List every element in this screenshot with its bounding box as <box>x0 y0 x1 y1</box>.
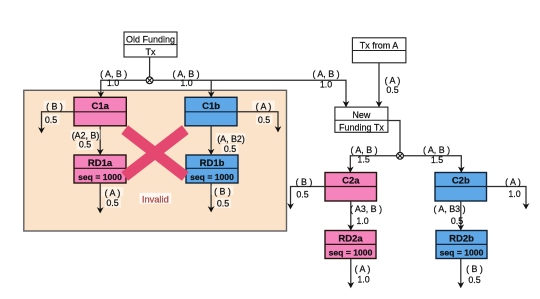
svg-text:1.0: 1.0 <box>356 216 368 226</box>
svg-text:( B ): ( B ) <box>466 264 483 274</box>
label (B) 0.5 below RD1b <box>212 186 234 209</box>
arrow C2b right output <box>523 203 530 209</box>
label (A3, B) 1.0 <box>350 204 382 226</box>
svg-text:( A3, B ): ( A3, B ) <box>350 204 382 214</box>
label (A) 1.0 right of C2b <box>505 177 521 199</box>
arrow RD1b output <box>208 206 215 212</box>
svg-text:1.0: 1.0 <box>357 274 369 284</box>
wire C1a left output (B) 0.5 <box>42 112 75 132</box>
revocable delivery box RD2a <box>325 231 376 259</box>
label (A,B) 1.0 left branch <box>100 69 127 88</box>
svg-text:RD1a: RD1a <box>88 158 113 169</box>
revocable delivery box RD1a <box>74 155 126 183</box>
label (A2, B) 0.5 <box>71 130 101 151</box>
arrow into RD2b <box>457 224 464 230</box>
svg-text:1.5: 1.5 <box>357 155 369 165</box>
svg-text:RD2b: RD2b <box>449 233 474 244</box>
arrow into C2a <box>347 167 354 173</box>
wire RD2b output (B) 0.5 <box>460 259 462 288</box>
svg-text:( A, B3 ): ( A, B3 ) <box>433 204 465 214</box>
svg-text:C2b: C2b <box>452 176 470 187</box>
commitment box C2a <box>325 173 377 202</box>
label (B) 0.5 left of C2a <box>296 177 313 200</box>
arrow C2a left output <box>287 203 294 209</box>
svg-text:0.5: 0.5 <box>224 144 236 154</box>
svg-text:( A ): ( A ) <box>256 102 272 112</box>
label Invalid background patch <box>140 193 172 204</box>
junction X1 <box>146 77 153 84</box>
box New Funding Tx <box>335 107 388 132</box>
junction X2 <box>397 152 404 159</box>
invalid-region tan panel <box>24 90 287 231</box>
wire branch down to C1b <box>210 80 212 97</box>
svg-text:1.0: 1.0 <box>320 80 332 90</box>
arrow into RD1a <box>97 149 104 155</box>
label (A,B) 1.5 right of X2 <box>423 145 450 165</box>
svg-text:seq = 1000: seq = 1000 <box>190 172 234 182</box>
svg-text:0.5: 0.5 <box>386 85 398 95</box>
label (A,B) 1.0 right branch <box>172 69 199 88</box>
label (A,B) 1.0 far right branch <box>312 69 339 89</box>
svg-text:C1b: C1b <box>202 101 220 112</box>
commitment box C1b <box>185 97 237 126</box>
arrow RD2a output <box>347 282 354 288</box>
wire New Funding Tx to junction X2 <box>388 121 400 156</box>
label (A) 0.5 <box>252 101 275 126</box>
svg-text:1.0: 1.0 <box>508 189 520 199</box>
svg-text:0.5: 0.5 <box>468 275 480 285</box>
svg-text:Funding Tx: Funding Tx <box>339 122 384 132</box>
svg-text:0.5: 0.5 <box>451 216 463 226</box>
commitment box C1a <box>74 97 126 126</box>
big red X invalid mark <box>125 130 186 177</box>
svg-text:seq = 1000: seq = 1000 <box>440 248 484 258</box>
wire C2a to RD2a <box>350 201 352 230</box>
svg-text:Tx: Tx <box>146 47 156 57</box>
wire C1b right output (A) 0.5 <box>237 112 278 131</box>
revocable delivery box RD2b <box>436 231 487 259</box>
svg-text:0.5: 0.5 <box>258 115 270 125</box>
svg-text:0.5: 0.5 <box>296 190 308 200</box>
svg-text:1.0: 1.0 <box>107 78 119 88</box>
arrow RD2b output <box>457 282 464 288</box>
arrow into New Funding Tx right input <box>376 101 383 107</box>
svg-text:( A ): ( A ) <box>355 264 371 274</box>
wire C1a to RD1a <box>99 126 101 154</box>
wire RD1a output (A) 0.5 <box>99 183 101 212</box>
svg-text:C1a: C1a <box>91 101 109 112</box>
svg-text:seq = 1000: seq = 1000 <box>329 248 373 258</box>
label (B) 0.5 <box>43 101 66 126</box>
svg-text:( B ): ( B ) <box>214 187 231 197</box>
arrow C1b right output <box>275 126 282 132</box>
wire RD2a output (A) 1.0 <box>350 259 352 288</box>
svg-text:( A, B ): ( A, B ) <box>350 145 377 155</box>
arrow into RD1b <box>208 149 215 155</box>
svg-text:( B ): ( B ) <box>296 177 313 187</box>
label (A,B) 1.5 left of X2 <box>350 145 377 165</box>
label (A) 0.5 from Tx from A <box>385 76 401 95</box>
svg-text:( A ): ( A ) <box>105 188 121 198</box>
wire Tx from A down to New Funding Tx <box>378 63 380 107</box>
arrow into C1b <box>208 91 215 97</box>
revocable delivery box RD1b <box>186 155 238 183</box>
wire C1b to RD1b <box>210 126 212 154</box>
svg-text:0.5: 0.5 <box>106 198 118 208</box>
svg-text:( A ): ( A ) <box>505 177 521 187</box>
svg-text:Invalid: Invalid <box>142 194 169 204</box>
wire C2a left output (B) 0.5 <box>291 187 326 209</box>
arrow RD1a output <box>97 207 104 213</box>
wire C2b to RD2b <box>460 201 462 230</box>
svg-text:( A, B ): ( A, B ) <box>312 69 339 79</box>
svg-text:0.5: 0.5 <box>217 199 229 209</box>
label (A, B3) 0.5 <box>433 204 465 226</box>
svg-text:Tx from A: Tx from A <box>360 40 399 50</box>
svg-text:Old Funding: Old Funding <box>126 35 175 45</box>
svg-text:( B ): ( B ) <box>46 101 63 111</box>
svg-text:1.0: 1.0 <box>180 78 192 88</box>
arrow into RD2a <box>347 224 354 230</box>
svg-text:RD2a: RD2a <box>338 233 363 244</box>
label (B) 0.5 below RD2b <box>466 264 483 285</box>
svg-text:1.5: 1.5 <box>431 155 443 165</box>
arrow into C2b <box>458 167 465 173</box>
wire RD1b output (B) 0.5 <box>210 183 212 211</box>
commitment box C2b <box>435 173 487 202</box>
svg-text:0.5: 0.5 <box>45 115 57 125</box>
label (A) 0.5 below RD1a <box>102 187 124 208</box>
svg-text:0.5: 0.5 <box>79 140 91 150</box>
label (A, B2) 0.5 <box>216 133 246 154</box>
svg-text:( A, B ): ( A, B ) <box>423 145 450 155</box>
svg-text:RD1b: RD1b <box>200 158 225 169</box>
wire Old Funding Tx to junction X1 <box>149 57 151 80</box>
box Old Funding Tx <box>124 32 177 57</box>
arrow C1a left output <box>38 127 45 133</box>
wire bus from junction X2 to C2a and C2b <box>350 156 461 172</box>
wire horizontal bus from junction X1 <box>101 80 346 106</box>
arrow into C1a <box>97 91 104 97</box>
svg-text:New: New <box>352 110 371 120</box>
arrow into New Funding Tx left input <box>343 101 350 107</box>
wire C2b right output (A) 1.0 <box>487 187 527 209</box>
svg-text:C2a: C2a <box>342 176 360 187</box>
box Tx from A <box>352 38 406 63</box>
svg-text:seq = 1000: seq = 1000 <box>78 172 122 182</box>
label (A) 1.0 below RD2a <box>355 264 371 284</box>
svg-text:(A, B2): (A, B2) <box>217 134 245 144</box>
